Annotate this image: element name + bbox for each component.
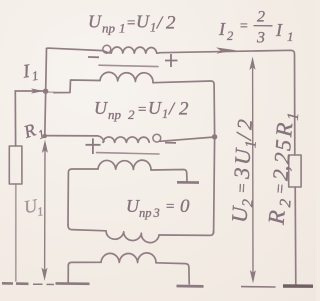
svg-text:1: 1 (119, 21, 126, 36)
junction node at left bus and T2 primary (43, 134, 47, 138)
svg-text:2: 2 (269, 152, 295, 165)
resistor R2 body (289, 155, 301, 187)
inductor: transformer 3 primary winding (3 scallops below line) (106, 231, 159, 243)
polarity dot marker of transformer 1 primary (103, 45, 111, 53)
label Uпр2=U1/2 (94, 98, 189, 122)
resistor R1 body (9, 146, 22, 184)
minus sign at transformer 2 primary right (165, 142, 176, 144)
tick mark at bottom of U2 arrow (241, 286, 276, 288)
wire: T2 secondary left end to T3 box left vertical (68, 169, 98, 225)
junction node at middle vertical and T2 primary (212, 134, 217, 139)
svg-text:1: 1 (287, 29, 294, 44)
core line of transformer 2 (97, 153, 160, 154)
wire: right vertical below R2 to bottom bar (294, 187, 297, 285)
current arrowhead I1 (31, 88, 44, 93)
svg-text:3: 3 (153, 206, 160, 220)
inductor: transformer 1 secondary winding (3 bumps) (100, 72, 153, 82)
label U2=3U1/2 rotated along U2 arrow (227, 118, 261, 223)
svg-text:2: 2 (277, 198, 295, 207)
label Uпр3=0 (126, 196, 190, 220)
svg-text:2: 2 (227, 29, 233, 43)
svg-text:3: 3 (256, 30, 265, 47)
wire: far-left vertical from I1 wire to R1 (14, 91, 16, 146)
svg-text:пр: пр (139, 206, 152, 220)
wire: top horizontal from bus corner to T1 primary coil (47, 48, 104, 50)
label I2=(2/3)I1 (218, 9, 294, 47)
plus sign at transformer 1 primary right (165, 54, 178, 67)
tick mark at bottom of U1 arrow (33, 283, 54, 285)
label R1 at left resistor (20, 120, 46, 143)
wire: T1 secondary right end down to middle junction (153, 81, 215, 135)
svg-text:2: 2 (128, 107, 135, 122)
wire: T2 secondary right end down to middle terminal bar (151, 170, 187, 182)
svg-text:1: 1 (150, 21, 156, 35)
wire: middle vertical from junction down to T3 primary right corner (214, 138, 215, 233)
svg-text:2: 2 (257, 9, 265, 26)
polarity dot marker of transformer 2 primary (153, 134, 161, 142)
wire: T1 primary coil right end to top-right corner (I2 wire) (160, 50, 295, 155)
svg-text:=: = (126, 16, 136, 32)
arrowhead of U2 pointing up (249, 57, 255, 71)
svg-text:R: R (271, 122, 297, 139)
svg-text:1: 1 (162, 107, 168, 121)
wire: T3 box left corner down to T3 primary coil line (68, 225, 106, 231)
wire: T3 secondary right end down to bottom bar (156, 263, 189, 284)
junction node at I1 wire and left bus (43, 89, 48, 94)
svg-text:U: U (88, 12, 102, 32)
svg-text:пр: пр (108, 107, 122, 122)
terminal bar bottom far-left (2, 282, 29, 285)
wire: T1 secondary left end step to bus junction (54, 80, 100, 93)
svg-text:U: U (126, 196, 140, 216)
inductor: transformer 1 primary winding (4 bumps) (103, 47, 160, 53)
svg-text:=: = (232, 182, 252, 194)
wire: T2 primary from bus junction to coil (45, 136, 104, 142)
inductor: transformer 3 secondary winding (3 bumps) (101, 253, 156, 263)
wire: T3 primary coil right end to middle vertical (159, 231, 214, 235)
svg-text:I: I (218, 19, 226, 39)
core line of transformer 1 (99, 65, 158, 66)
svg-text:0: 0 (180, 196, 190, 217)
svg-text:=: = (239, 19, 248, 34)
svg-text:2: 2 (232, 118, 257, 130)
svg-text:5: 5 (270, 139, 296, 152)
terminal bar at bottom of T3 secondary left lead (56, 282, 90, 285)
label R2=2,25R1 rotated along R2 branch (263, 111, 302, 227)
svg-text:3: 3 (229, 167, 255, 180)
minus sign at transformer 1 primary left (88, 56, 99, 58)
wire: left bus vertical from top corner to U1 junction (45, 49, 47, 137)
svg-text:=: = (270, 182, 290, 195)
terminal bar bottom of T3 secondary right lead (177, 285, 204, 288)
svg-text:U: U (136, 12, 150, 32)
svg-text:R: R (263, 209, 289, 226)
label I1 at left input (21, 61, 40, 84)
svg-text:2: 2 (179, 99, 189, 120)
svg-text:1: 1 (285, 112, 303, 121)
terminal bar bottom-right below R2 (283, 284, 313, 288)
arrowhead of U1 pointing down (41, 268, 47, 282)
arrowhead of U1 pointing up (42, 140, 48, 154)
inductor: transformer 2 secondary winding (3 bumps) (98, 160, 151, 170)
terminal bar below T2 secondary right lead (middle) (177, 181, 199, 184)
inductor: transformer 2 primary winding (4 bumps) (103, 137, 149, 142)
svg-text:1: 1 (242, 140, 259, 149)
wire: far-left vertical from R1 to bottom bar (15, 184, 17, 281)
svg-text:2: 2 (239, 199, 256, 208)
plus sign at transformer 2 primary left (86, 138, 101, 154)
svg-text:=: = (165, 199, 175, 215)
voltage arrow U2 shaft (252, 62, 254, 278)
svg-text:U: U (94, 98, 108, 118)
wire: T3 secondary left end down to bottom bar (68, 262, 101, 282)
svg-text:U: U (148, 98, 162, 118)
label U1 beside voltage arrow (22, 195, 44, 219)
arrowhead of U2 pointing down (250, 270, 256, 284)
svg-text:2: 2 (166, 13, 176, 34)
svg-text:пр: пр (102, 21, 116, 36)
current arrowhead I2 on top wire (216, 47, 236, 53)
label Uпр1=U1/2 (88, 12, 176, 36)
voltage arrow U1 shaft (44, 146, 46, 276)
wire: T2 primary coil right end to middle junction (160, 137, 215, 141)
svg-text:I: I (275, 20, 283, 40)
svg-text:=: = (137, 102, 147, 118)
wire: I1 input horizontal at left (15, 90, 43, 92)
